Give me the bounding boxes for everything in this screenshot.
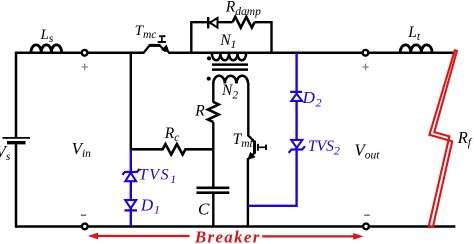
battery source Vs (long plate) <box>3 137 31 139</box>
transistor Tmc (series main switch on top bus) <box>144 36 169 53</box>
wire: R bottom to Rc junction to capacitor C <box>212 122 214 187</box>
label + (Vin polarity) <box>82 64 88 71</box>
label - (Vout negative) <box>364 214 370 216</box>
wire: Rdamp snubber branch (left vertical, top rail, right vertical) <box>191 22 271 53</box>
svg-text:Vin: Vin <box>72 139 92 160</box>
TVS diode TVS2 (apex down, bent bar) <box>291 140 302 148</box>
wire: N2 left lead down to R <box>212 83 214 103</box>
label + (Vout polarity) <box>363 64 369 71</box>
inductor Ls <box>31 45 62 52</box>
inductor Lt <box>400 45 432 52</box>
transformer primary winding N1 (scallops under top bus) <box>212 54 246 60</box>
svg-text:Ls: Ls <box>40 27 54 45</box>
svg-text:R: R <box>194 103 205 120</box>
svg-text:Breaker: Breaker <box>194 227 261 244</box>
transistor Tmt (main breaker switch) <box>248 136 266 160</box>
resistor Rc (with horizontal leads) <box>131 144 214 154</box>
TVS diode TVS1 (apex up, bent bar) <box>125 173 136 182</box>
fault resistance Rf (red lightning bolt) <box>429 50 457 226</box>
svg-text:Tmt: Tmt <box>233 131 254 150</box>
wire: blue branch TVS1/D1 vertical <box>130 150 132 227</box>
label - (Vin negative) <box>81 214 86 216</box>
svg-text:Rc: Rc <box>164 125 180 144</box>
wire: Tmt emitter down to bottom bus <box>247 158 249 227</box>
svg-text:Rdamp: Rdamp <box>225 0 261 18</box>
svg-text:N1: N1 <box>219 32 236 51</box>
svg-text:Lt: Lt <box>407 24 421 43</box>
svg-text:TVS1: TVS1 <box>139 167 178 186</box>
resistor R <box>208 102 219 122</box>
svg-text:Vout: Vout <box>354 140 380 161</box>
node: bottom right terminal <box>363 224 369 230</box>
breaker extent arrow (left, points left) <box>97 235 190 237</box>
polarity dot N2 <box>207 77 211 81</box>
diode D1 (apex down) <box>125 200 136 208</box>
svg-text:Rf: Rf <box>457 128 473 149</box>
svg-text:N2: N2 <box>221 82 238 101</box>
svg-text:Tmc: Tmc <box>135 23 157 41</box>
wire: left bus upper (top bus down to Vs plate) <box>15 52 18 138</box>
transformer secondary winding N2 <box>213 76 248 84</box>
svg-text:D2: D2 <box>302 88 322 109</box>
wire: N2 right lead down to Tmt <box>247 83 249 136</box>
breaker extent arrow (right, points right) <box>262 235 354 237</box>
svg-text:D1: D1 <box>140 195 160 216</box>
transformer core <box>212 65 248 70</box>
wire: top bus, load side (Tmc to Rf) <box>168 52 455 55</box>
node: bottom left terminal <box>82 224 88 230</box>
diode in Rdamp branch (points left) <box>207 17 209 28</box>
wire: bottom bus <box>16 225 455 228</box>
diode D2 (apex up) <box>291 94 302 101</box>
capacitor C plates <box>197 188 230 193</box>
svg-text:C: C <box>198 199 210 218</box>
wire: left bus lower (Vs plate down to bottom bus) <box>15 143 18 228</box>
svg-text:TVS2: TVS2 <box>308 138 340 157</box>
battery source Vs (short thick plate) <box>7 141 26 144</box>
wire: Tmc branch vertical (top bus down to Rc) <box>130 53 132 150</box>
resistor Rdamp <box>233 17 255 28</box>
wire: C bottom to bottom bus <box>212 193 214 227</box>
wire: blue branch D2/TVS2 vertical and return to Tmt emitter <box>248 53 296 206</box>
node: top left terminal <box>82 50 88 56</box>
polarity dot N1 <box>207 56 211 60</box>
wire: top bus, source side (Vs corner to Tmc) <box>16 52 144 55</box>
node: top right terminal <box>363 50 369 56</box>
svg-text:Vs: Vs <box>0 142 11 163</box>
